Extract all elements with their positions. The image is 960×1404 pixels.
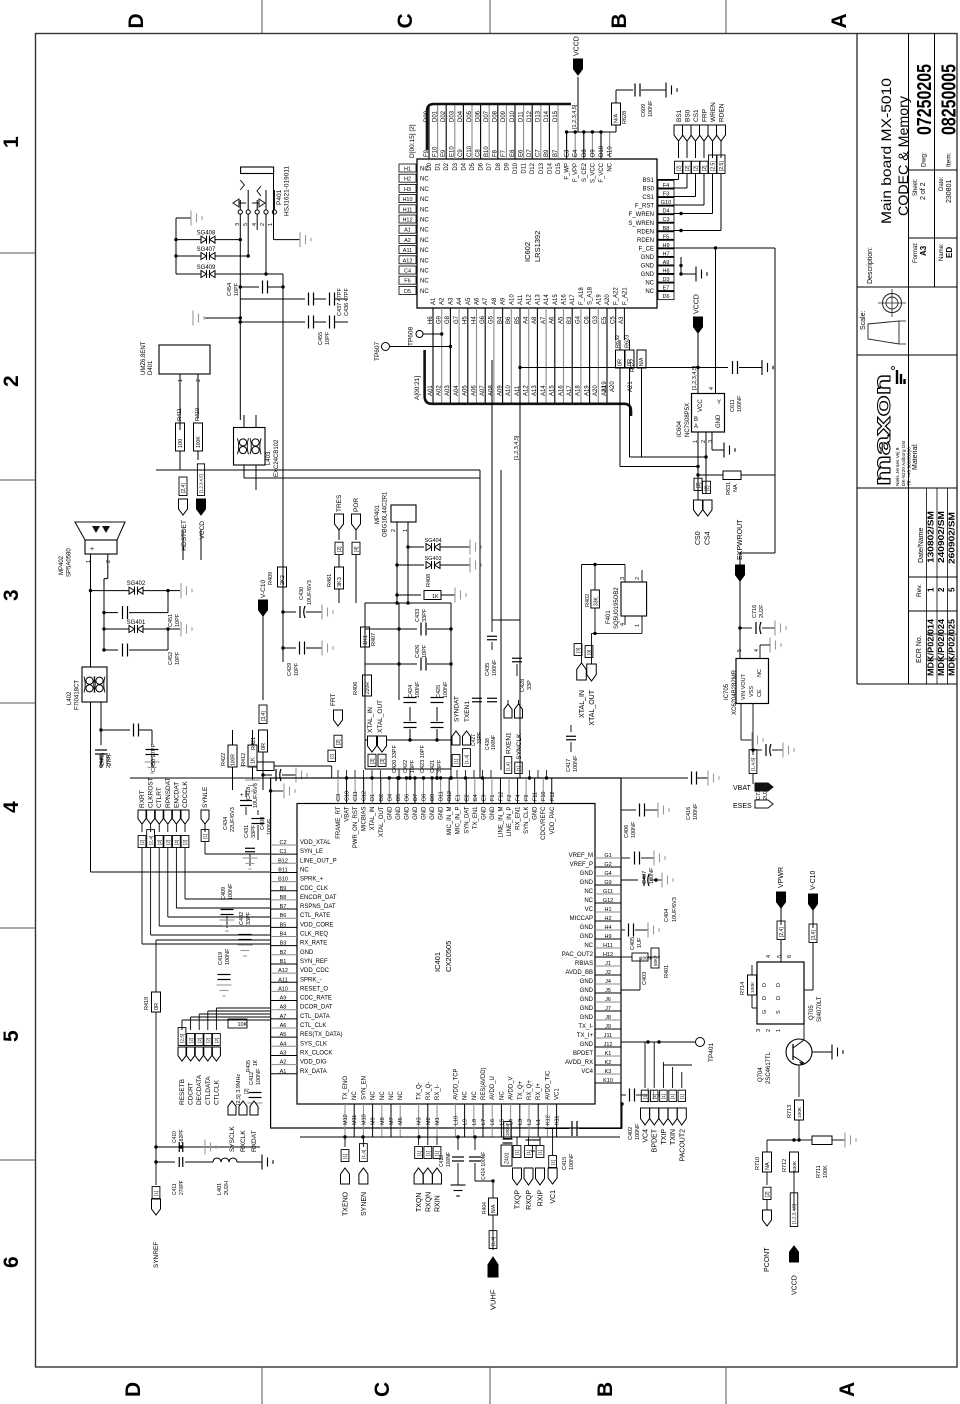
svg-text:M9: M9 <box>371 1117 377 1125</box>
svg-text:A01: A01 <box>428 385 434 396</box>
svg-text:D[00:15] [2]: D[00:15] [2] <box>409 124 416 158</box>
svg-text:[2]: [2] <box>188 1038 194 1043</box>
svg-text:D: D <box>762 996 768 1000</box>
svg-text:TP607: TP607 <box>374 341 381 361</box>
svg-text:SG402: SG402 <box>127 581 146 587</box>
svg-text:E1: E1 <box>456 794 462 801</box>
svg-text:F12: F12 <box>550 792 556 801</box>
svg-text:GND: GND <box>580 880 594 886</box>
svg-text:DK-9220 Aalborg Ost: DK-9220 Aalborg Ost <box>901 440 907 486</box>
svg-text:CS1: CS1 <box>642 195 654 201</box>
svg-text:[1,4]: [1,4] <box>361 1150 367 1159</box>
svg-text:E3: E3 <box>565 149 571 157</box>
svg-text:R711: R711 <box>816 1165 822 1178</box>
svg-text:M10: M10 <box>361 1114 367 1125</box>
svg-text:G12: G12 <box>603 898 613 904</box>
svg-text:260902/SM: 260902/SM <box>947 512 957 564</box>
svg-text:AVDD_TIC: AVDD_TIC <box>545 1070 551 1100</box>
svg-text:[1]: [1] <box>643 1094 648 1099</box>
svg-text:B8: B8 <box>280 895 287 901</box>
svg-text:A02: A02 <box>437 385 443 396</box>
svg-text:[2]: [2] <box>676 165 682 171</box>
svg-text:100R: 100R <box>231 754 237 766</box>
svg-text:A7: A7 <box>483 297 489 305</box>
svg-text:C455: C455 <box>318 332 324 345</box>
svg-text:UMZ6.8ENT: UMZ6.8ENT <box>141 341 147 375</box>
svg-text:100NF: 100NF <box>443 681 449 698</box>
svg-text:C421: C421 <box>430 760 436 773</box>
svg-text:Main board MX-5010: Main board MX-5010 <box>879 78 894 224</box>
svg-text:F11: F11 <box>533 792 539 801</box>
svg-text:100K: 100K <box>750 981 756 993</box>
svg-text:100K: 100K <box>797 1106 803 1118</box>
svg-text:D12: D12 <box>530 162 536 174</box>
svg-text:NC: NC <box>584 889 593 895</box>
svg-text:A11: A11 <box>518 294 524 305</box>
svg-text:H1: H1 <box>604 907 611 913</box>
svg-text:GND: GND <box>580 1042 594 1048</box>
svg-text:SYN_EN: SYN_EN <box>361 1076 367 1100</box>
svg-text:A20: A20 <box>605 294 611 305</box>
svg-text:RXDAT: RXDAT <box>251 1130 258 1152</box>
svg-text:RX_I+: RX_I+ <box>536 1083 542 1100</box>
svg-text:G1: G1 <box>604 853 611 859</box>
svg-text:+: + <box>240 793 244 799</box>
svg-text:0R: 0R <box>618 359 624 366</box>
svg-text:C411: C411 <box>172 1183 178 1195</box>
svg-text:RXCLK: RXCLK <box>240 1130 247 1152</box>
svg-text:A1: A1 <box>404 228 411 234</box>
svg-text:D: D <box>776 996 782 1000</box>
svg-text:MICBIAS: MICBIAS <box>362 807 368 832</box>
svg-text:D10: D10 <box>510 110 516 122</box>
svg-text:K12: K12 <box>545 1115 551 1125</box>
svg-text:A17: A17 <box>570 294 576 305</box>
svg-text:J5: J5 <box>605 988 611 994</box>
svg-text:100NF: 100NF <box>256 1068 262 1085</box>
svg-text:C: C <box>394 13 417 28</box>
svg-text:J12: J12 <box>604 1042 613 1048</box>
svg-text:[2]: [2] <box>244 1088 250 1094</box>
svg-text:D04: D04 <box>458 110 464 122</box>
svg-text:R401: R401 <box>664 965 670 978</box>
svg-text:GND: GND <box>404 806 410 820</box>
svg-text:VIN VOUT: VIN VOUT <box>741 673 747 700</box>
svg-text:L403: L403 <box>266 451 272 465</box>
svg-text:D13: D13 <box>539 162 545 174</box>
svg-text:MDK/P02/014: MDK/P02/014 <box>927 618 936 676</box>
svg-text:M1: M1 <box>435 1117 441 1125</box>
svg-text:L1: L1 <box>536 1119 542 1125</box>
svg-text:B7: B7 <box>280 904 287 910</box>
svg-text:H12: H12 <box>603 952 613 958</box>
svg-text:D7: D7 <box>527 149 533 157</box>
svg-text:[2]: [2] <box>696 482 702 488</box>
svg-text:[1]: [1] <box>416 1151 422 1156</box>
svg-text:VREF_M: VREF_M <box>569 853 593 859</box>
svg-text:F_RST: F_RST <box>635 204 654 210</box>
svg-text:D13: D13 <box>536 110 542 122</box>
svg-text:C423 10PF: C423 10PF <box>420 745 426 773</box>
svg-text:CS1: CS1 <box>693 109 700 122</box>
svg-text:G: G <box>762 1010 768 1014</box>
svg-text:[1]: [1] <box>670 1094 675 1099</box>
svg-text:RBIAS: RBIAS <box>575 961 593 967</box>
svg-text:CX20505: CX20505 <box>444 941 453 972</box>
svg-text:F9: F9 <box>424 149 430 157</box>
svg-text:AVDD_TCP: AVDD_TCP <box>453 1068 459 1100</box>
svg-text:K3: K3 <box>605 1069 612 1075</box>
svg-text:RXIP: RXIP <box>538 1190 545 1207</box>
svg-text:[2]: [2] <box>702 165 708 171</box>
svg-text:NC: NC <box>420 207 429 213</box>
svg-text:R461: R461 <box>327 574 333 587</box>
svg-text:SYS_CLK: SYS_CLK <box>300 1041 327 1047</box>
svg-text:RXQN: RXQN <box>425 1192 432 1212</box>
svg-text:NC: NC <box>472 1091 478 1100</box>
svg-text:TX_EN1: TX_EN1 <box>473 806 479 829</box>
svg-text:SPRK_-: SPRK_- <box>300 977 322 983</box>
svg-text:A12: A12 <box>403 258 413 264</box>
svg-text:A06: A06 <box>471 385 477 396</box>
svg-text:0R: 0R <box>154 1003 160 1010</box>
svg-text:NC: NC <box>584 943 593 949</box>
svg-text:B12: B12 <box>278 858 288 864</box>
svg-text:GND: GND <box>641 255 655 261</box>
svg-text:WREN: WREN <box>710 102 717 122</box>
svg-text:[2]: [2] <box>337 546 343 552</box>
svg-text:10UF/6V3: 10UF/6V3 <box>253 783 259 808</box>
svg-text:CTL_RATE: CTL_RATE <box>300 913 330 919</box>
svg-text:RDEN: RDEN <box>719 103 726 122</box>
svg-text:BS0: BS0 <box>643 187 655 193</box>
svg-text:R405: R405 <box>246 1060 252 1072</box>
svg-text:D6: D6 <box>479 162 485 170</box>
svg-text:LRS1392: LRS1392 <box>533 231 542 262</box>
svg-text:C405: C405 <box>630 937 636 950</box>
svg-text:K10: K10 <box>603 1078 613 1084</box>
svg-text:XTAL_OUT: XTAL_OUT <box>377 700 384 733</box>
svg-text:[2,5]: [2,5] <box>719 161 725 171</box>
svg-text:NC: NC <box>420 197 429 203</box>
svg-text:B5: B5 <box>280 922 287 928</box>
svg-text:100NF: 100NF <box>693 803 699 820</box>
svg-text:A18: A18 <box>576 385 582 396</box>
svg-text:C435: C435 <box>485 663 491 676</box>
svg-text:A7: A7 <box>280 1014 287 1020</box>
svg-text:D15: D15 <box>556 162 562 174</box>
svg-text:100K: 100K <box>196 436 202 448</box>
svg-text:R712: R712 <box>782 1159 788 1172</box>
svg-text:B: B <box>608 13 631 28</box>
svg-text:GND: GND <box>580 988 594 994</box>
svg-text:[3,4]: [3,4] <box>811 930 817 940</box>
svg-text:XTAL_IN: XTAL_IN <box>370 807 376 831</box>
svg-text:C407: C407 <box>642 871 648 884</box>
svg-text:RX_Q-: RX_Q- <box>426 1082 432 1100</box>
svg-text:D15: D15 <box>553 110 559 122</box>
svg-text:[2]: [2] <box>183 840 189 845</box>
svg-text:Dwg:: Dwg: <box>921 152 928 167</box>
svg-text:1K: 1K <box>251 757 257 764</box>
svg-text:[4]: [4] <box>652 1094 657 1099</box>
svg-text:10PF: 10PF <box>294 662 300 676</box>
svg-text:10UF/6V3: 10UF/6V3 <box>307 580 313 605</box>
svg-text:R411: R411 <box>177 408 183 421</box>
svg-text:Q705: Q705 <box>809 1005 815 1020</box>
svg-text:2K2: 2K2 <box>280 575 286 585</box>
svg-text:E4: E4 <box>473 794 479 801</box>
svg-text:A5: A5 <box>280 1032 287 1038</box>
svg-text:CODEC & Memory: CODEC & Memory <box>896 96 911 216</box>
svg-text:CS4: CS4 <box>705 531 712 545</box>
svg-text:SP5A0580: SP5A0580 <box>67 548 73 577</box>
svg-text:S: S <box>776 1010 782 1014</box>
svg-text:A4: A4 <box>280 1041 287 1047</box>
svg-text:10UF/6V3: 10UF/6V3 <box>672 897 678 922</box>
svg-text:[2,4]: [2,4] <box>181 483 187 493</box>
svg-text:NC: NC <box>499 1091 505 1100</box>
svg-text:PACOUT2: PACOUT2 <box>679 1129 686 1162</box>
svg-text:C433: C433 <box>415 609 421 622</box>
svg-text:C1: C1 <box>279 849 286 855</box>
svg-text:SG407: SG407 <box>197 247 216 253</box>
svg-text:NC: NC <box>420 177 429 183</box>
svg-text:K11: K11 <box>555 1116 561 1125</box>
svg-text:NC: NC <box>389 1091 395 1100</box>
svg-text:33PF: 33PF <box>251 824 257 838</box>
svg-text:NC: NC <box>420 258 429 264</box>
svg-text:VPWR: VPWR <box>778 867 785 888</box>
svg-text:PWR_ON_RST: PWR_ON_RST <box>353 806 359 848</box>
svg-text:A20: A20 <box>610 381 616 392</box>
svg-text:L3: L3 <box>518 1119 524 1125</box>
svg-text:ECR No.: ECR No. <box>916 635 923 663</box>
svg-text:B6: B6 <box>280 913 287 919</box>
svg-text:[2,5]: [2,5] <box>710 161 716 171</box>
svg-text:RES(AVDD): RES(AVDD) <box>481 1067 487 1100</box>
svg-text:TX_Q+: TX_Q+ <box>518 1080 524 1100</box>
svg-text:H1: H1 <box>404 167 411 173</box>
svg-text:NC: NC <box>757 669 763 677</box>
svg-text:100K: 100K <box>823 1165 829 1178</box>
svg-text:VC: VC <box>585 907 594 913</box>
svg-text:MDK/P02/025: MDK/P02/025 <box>948 618 957 676</box>
svg-text:E2: E2 <box>464 794 470 801</box>
svg-text:J7: J7 <box>605 1006 611 1012</box>
svg-text:D401: D401 <box>148 360 154 375</box>
svg-text:33P: 33P <box>527 680 533 690</box>
svg-text:B10: B10 <box>484 146 490 157</box>
svg-text:Description:: Description: <box>867 247 874 284</box>
svg-text:D03: D03 <box>450 110 456 122</box>
svg-text:R622: R622 <box>630 359 636 372</box>
svg-text:A5: A5 <box>466 297 472 305</box>
svg-text:V-C10: V-C10 <box>260 580 267 598</box>
svg-text:27PF: 27PF <box>107 752 113 766</box>
svg-text:NC: NC <box>420 238 429 244</box>
svg-text:D: D <box>762 983 768 987</box>
svg-text:GND: GND <box>490 806 496 820</box>
svg-text:F2: F2 <box>507 795 513 801</box>
svg-text:R713: R713 <box>787 1105 793 1118</box>
svg-text:[1]: [1] <box>425 1151 431 1156</box>
svg-text:[2]: [2] <box>197 1038 203 1043</box>
svg-text:DECDATA: DECDATA <box>196 1074 203 1105</box>
svg-text:1UF: 1UF <box>637 937 643 948</box>
svg-text:[2]: [2] <box>214 1038 220 1043</box>
svg-text:H4: H4 <box>604 925 611 931</box>
svg-text:A03: A03 <box>445 385 451 396</box>
svg-text:NC: NC <box>380 1091 386 1100</box>
svg-text:maxon: maxon <box>869 374 895 486</box>
svg-text:A10: A10 <box>278 986 288 992</box>
svg-text:C404: C404 <box>664 909 670 922</box>
svg-text:L402: L402 <box>67 691 73 705</box>
svg-text:C418: C418 <box>246 787 252 800</box>
svg-text:IC705: IC705 <box>724 683 730 700</box>
svg-text:[1]: [1] <box>343 1154 349 1159</box>
svg-text:100NF: 100NF <box>649 867 655 884</box>
svg-text:GND: GND <box>641 264 655 270</box>
svg-text:SI4070LT: SI4070LT <box>817 996 823 1022</box>
svg-text:[1]: [1] <box>538 1150 544 1155</box>
svg-text:[2]: [2] <box>704 485 710 491</box>
svg-text:ENCDAT: ENCDAT <box>173 782 180 808</box>
svg-text:SYSCLK: SYSCLK <box>229 1126 236 1152</box>
svg-text:A10: A10 <box>608 146 614 157</box>
svg-text:D8: D8 <box>582 149 588 157</box>
svg-text:SYNEN: SYNEN <box>361 1192 368 1216</box>
svg-text:D8: D8 <box>422 794 428 801</box>
svg-text:LINE_IN_M: LINE_IN_M <box>498 807 504 838</box>
svg-text:M8: M8 <box>380 1117 386 1125</box>
svg-text:BS1: BS1 <box>676 109 683 122</box>
svg-text:VDD_CDC: VDD_CDC <box>300 968 330 974</box>
svg-text:100NF: 100NF <box>267 818 273 835</box>
svg-text:R409: R409 <box>268 572 274 585</box>
svg-text:130802/SM: 130802/SM <box>926 511 936 563</box>
svg-text:XC6204B282MR: XC6204B282MR <box>732 669 738 715</box>
svg-text:100NF: 100NF <box>491 735 497 750</box>
svg-text:GND: GND <box>533 806 539 820</box>
svg-text:A9: A9 <box>501 297 507 305</box>
svg-text:CDC_CLK: CDC_CLK <box>300 886 328 892</box>
svg-text:H10: H10 <box>402 197 412 203</box>
svg-text:C10: C10 <box>345 791 351 801</box>
svg-text:B: B <box>594 1382 617 1397</box>
svg-text:D6: D6 <box>662 294 669 300</box>
svg-text:A6: A6 <box>475 297 481 305</box>
svg-text:D: D <box>125 13 148 28</box>
svg-text:ENCOR_DAT: ENCOR_DAT <box>300 895 337 901</box>
svg-text:SYN_REF: SYN_REF <box>300 959 328 965</box>
svg-text:F12: F12 <box>498 792 504 801</box>
svg-text:33PF: 33PF <box>437 759 443 773</box>
svg-text:VREF_P: VREF_P <box>570 862 593 868</box>
svg-text:D11: D11 <box>518 111 524 122</box>
svg-text:MDK/P02/024: MDK/P02/024 <box>937 618 946 676</box>
svg-text:NC: NC <box>645 289 654 295</box>
svg-text:GND: GND <box>439 806 445 820</box>
svg-text:+: + <box>90 546 94 553</box>
svg-text:D9: D9 <box>590 149 596 157</box>
svg-text:VUHF: VUHF <box>489 1289 498 1310</box>
svg-text:SYN_CLK: SYN_CLK <box>524 807 530 834</box>
svg-text:HSJ1621-019011: HSJ1621-019011 <box>284 166 291 216</box>
svg-text:NC: NC <box>420 248 429 254</box>
svg-text:1: 1 <box>635 624 641 627</box>
svg-text:VSS: VSS <box>749 686 755 697</box>
svg-text:A10: A10 <box>509 294 515 305</box>
svg-text:RSPNS_DAT: RSPNS_DAT <box>300 904 336 910</box>
svg-text:J8: J8 <box>605 1015 611 1021</box>
svg-text:CDCRT: CDCRT <box>188 1082 195 1105</box>
svg-text:2: 2 <box>635 577 641 580</box>
svg-text:C9: C9 <box>458 149 464 157</box>
svg-text:VDD_XTAL: VDD_XTAL <box>300 840 331 846</box>
svg-text:B3: B3 <box>280 941 287 947</box>
svg-text:TXEN1: TXEN1 <box>464 701 471 722</box>
svg-text:D3: D3 <box>453 162 459 170</box>
svg-text:C413: C413 <box>439 1155 445 1167</box>
svg-text:MIC_IN_P: MIC_IN_P <box>456 807 462 835</box>
svg-text:B7: B7 <box>553 149 559 157</box>
svg-text:B1: B1 <box>280 959 287 965</box>
svg-text:1: 1 <box>0 136 23 148</box>
svg-text:1: 1 <box>178 379 184 382</box>
svg-text:A: A <box>836 1382 859 1397</box>
svg-text:NC: NC <box>420 228 429 234</box>
svg-text:D9: D9 <box>430 794 436 801</box>
svg-text:TXQP: TXQP <box>515 1190 522 1209</box>
svg-text:6: 6 <box>787 955 793 958</box>
svg-text:D01: D01 <box>432 110 438 122</box>
svg-text:J4: J4 <box>605 979 611 985</box>
svg-text:RX_EN1: RX_EN1 <box>516 806 522 830</box>
svg-text:SYNLE: SYNLE <box>202 786 209 808</box>
svg-text:[2]: [2] <box>140 840 146 845</box>
svg-text:NC: NC <box>398 1091 404 1100</box>
svg-text:100NF: 100NF <box>631 821 637 838</box>
svg-text:M3: M3 <box>417 1117 423 1125</box>
svg-text:[2]: [2] <box>685 165 691 171</box>
svg-text:D9: D9 <box>504 162 510 170</box>
svg-text:A2: A2 <box>404 238 411 244</box>
svg-text:H11: H11 <box>403 207 413 213</box>
svg-text:GND: GND <box>422 806 428 820</box>
svg-text:S_A18: S_A18 <box>588 286 594 305</box>
svg-text:D02: D02 <box>441 110 447 122</box>
svg-text:270PF: 270PF <box>179 1180 185 1195</box>
svg-text:10PF: 10PF <box>325 331 331 345</box>
svg-text:C12: C12 <box>362 791 368 801</box>
svg-text:MIC_IN_M: MIC_IN_M <box>447 807 453 836</box>
svg-text:GND: GND <box>580 979 594 985</box>
svg-text:D11: D11 <box>439 791 445 801</box>
svg-text:C403: C403 <box>642 972 648 985</box>
svg-text:F10: F10 <box>541 792 547 801</box>
svg-text:R628: R628 <box>622 111 628 124</box>
svg-text:100NF: 100NF <box>640 956 654 961</box>
svg-text:NC: NC <box>420 218 429 224</box>
svg-text:[1]: [1] <box>550 1160 556 1165</box>
svg-text:2 of 2: 2 of 2 <box>920 182 927 200</box>
svg-text:A12: A12 <box>527 294 533 305</box>
svg-text:D1: D1 <box>436 162 442 170</box>
svg-text:100: 100 <box>178 439 184 448</box>
svg-text:POR: POR <box>353 498 360 512</box>
